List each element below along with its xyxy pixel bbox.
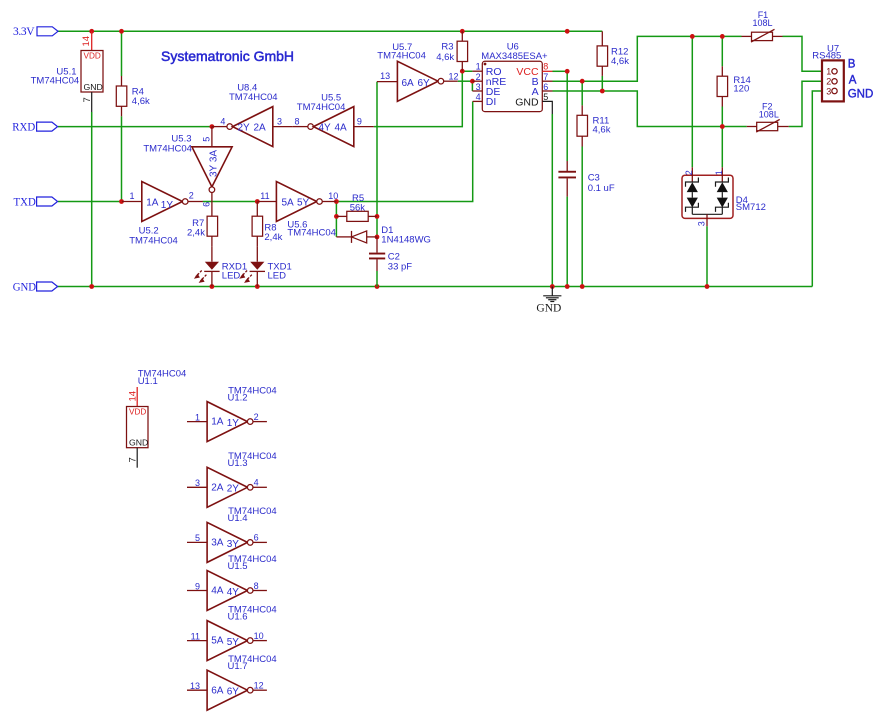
node GND global label xyxy=(13,282,58,294)
svg-text:8: 8 xyxy=(254,581,259,591)
svg-text:9: 9 xyxy=(195,581,200,591)
svg-text:A: A xyxy=(849,74,857,86)
svg-text:7: 7 xyxy=(128,457,139,462)
svg-text:3.3V: 3.3V xyxy=(13,26,35,38)
left TVS pair xyxy=(686,178,699,187)
svg-text:TXD: TXD xyxy=(14,197,36,209)
svg-text:6Y: 6Y xyxy=(418,78,431,89)
svg-text:12: 12 xyxy=(449,72,459,82)
svg-text:2: 2 xyxy=(189,191,194,201)
svg-text:1Y: 1Y xyxy=(161,200,174,211)
wire pin5 GND column xyxy=(551,114,553,287)
connector U7 RS485 xyxy=(812,43,844,101)
svg-text:3: 3 xyxy=(277,116,282,126)
wire U5.5 input to RO column xyxy=(374,71,473,126)
wire F2 to U7 pin2 xyxy=(789,81,822,126)
svg-text:14: 14 xyxy=(81,36,92,47)
power unit U5.1 xyxy=(31,31,103,112)
svg-text:12: 12 xyxy=(254,681,264,691)
svg-text:GND: GND xyxy=(13,282,36,294)
svg-text:11: 11 xyxy=(260,191,269,201)
svg-text:TM74HC04: TM74HC04 xyxy=(129,236,178,247)
svg-text:4,6k: 4,6k xyxy=(593,125,611,136)
power unit U1.1 xyxy=(127,369,187,468)
op-amp U8.4 inverter (mirrored) xyxy=(212,82,293,146)
pin 2 nRE xyxy=(472,80,482,82)
op-amp U1.7 inverter xyxy=(187,654,277,710)
svg-text:1A: 1A xyxy=(211,417,224,428)
svg-text:1A: 1A xyxy=(146,198,159,209)
svg-text:5: 5 xyxy=(195,533,200,543)
svg-text:LED: LED xyxy=(268,271,287,282)
svg-text:DI: DI xyxy=(486,96,497,108)
svg-text:5Y: 5Y xyxy=(227,637,240,648)
svg-text:TM74HC04: TM74HC04 xyxy=(297,102,346,113)
svg-text:9: 9 xyxy=(357,116,362,126)
svg-text:1N4148WG: 1N4148WG xyxy=(381,234,431,245)
svg-text:6: 6 xyxy=(543,82,548,92)
pin 5 GND xyxy=(542,101,552,114)
svg-text:4Y: 4Y xyxy=(227,587,240,598)
op-amp U5.5 inverter (mirrored) xyxy=(293,93,374,147)
svg-text:6: 6 xyxy=(254,533,259,543)
svg-text:8: 8 xyxy=(295,116,300,126)
pin 6 A xyxy=(542,90,552,92)
op-amp U1.3 inverter xyxy=(187,451,277,507)
diode D1 xyxy=(336,225,431,246)
pin 1 xyxy=(721,167,723,182)
wire U5.6 output down to R5/D1 xyxy=(335,202,337,237)
pin 3 DE xyxy=(472,90,482,92)
pin 4 DI xyxy=(473,100,483,102)
svg-text:RXD: RXD xyxy=(12,122,35,134)
svg-text:5A: 5A xyxy=(282,198,295,209)
LED TXD1 xyxy=(239,246,291,286)
svg-text:B: B xyxy=(848,59,856,71)
svg-text:108L: 108L xyxy=(759,109,779,119)
svg-text:13: 13 xyxy=(380,71,390,81)
svg-text:4: 4 xyxy=(476,92,481,102)
svg-text:1: 1 xyxy=(195,412,200,422)
svg-text:4,6k: 4,6k xyxy=(132,96,150,107)
svg-text:GND: GND xyxy=(536,303,561,315)
svg-text:4Y: 4Y xyxy=(319,123,332,134)
pin 1 RO xyxy=(472,70,482,72)
node TXD global label xyxy=(14,197,58,209)
svg-text:4: 4 xyxy=(220,116,225,126)
svg-text:1: 1 xyxy=(476,62,481,72)
wire U5.1 pin7 column xyxy=(91,112,93,287)
svg-text:U1.2: U1.2 xyxy=(228,392,248,403)
op-amp U5.2 inverter xyxy=(122,182,203,247)
op-amp U5.7 inverter xyxy=(377,42,459,101)
op-amp U1.6 inverter xyxy=(187,604,277,660)
svg-text:5: 5 xyxy=(543,92,548,102)
wire U5.6 output to DI xyxy=(336,101,472,201)
svg-text:4,6k: 4,6k xyxy=(611,56,629,67)
svg-text:3Y 3A: 3Y 3A xyxy=(208,150,219,177)
junction dots xyxy=(89,29,94,34)
wire U5.7 output to nRE xyxy=(458,80,473,82)
resistor R11 xyxy=(577,105,611,146)
svg-text:U1.6: U1.6 xyxy=(228,611,248,622)
svg-text:GND: GND xyxy=(515,97,539,109)
svg-text:2A: 2A xyxy=(211,482,224,493)
svg-text:120: 120 xyxy=(733,84,749,95)
resistor R3 xyxy=(436,31,467,71)
pin 2 xyxy=(691,167,693,182)
node 3.3V global label xyxy=(13,26,58,38)
wire D4 pin3 column xyxy=(706,226,708,286)
fuse F1 xyxy=(742,10,783,42)
svg-text:6Y: 6Y xyxy=(227,687,240,698)
wire RXD row xyxy=(58,126,212,128)
LED RXD1 xyxy=(194,246,247,286)
svg-text:5: 5 xyxy=(202,137,212,142)
svg-text:6A: 6A xyxy=(211,685,224,696)
wire TXD row xyxy=(58,201,122,203)
common bus and pin 3 xyxy=(692,213,722,215)
svg-text:SM712: SM712 xyxy=(736,202,766,213)
svg-text:2A: 2A xyxy=(254,123,267,134)
svg-text:1Y: 1Y xyxy=(227,418,240,429)
svg-text:6: 6 xyxy=(202,202,212,207)
wire F1 to U7 pin1 xyxy=(783,36,823,71)
wire U5.2 output net xyxy=(203,201,258,203)
fuse F2 xyxy=(747,101,789,132)
node RXD global label xyxy=(12,122,57,134)
svg-text:13: 13 xyxy=(190,681,200,691)
svg-text:3A: 3A xyxy=(211,538,224,549)
resistor R4 xyxy=(116,76,150,116)
svg-text:U1.5: U1.5 xyxy=(228,561,248,572)
svg-text:1: 1 xyxy=(826,67,831,77)
svg-text:MAX3485ESA+: MAX3485ESA+ xyxy=(481,51,548,62)
svg-text:U1.3: U1.3 xyxy=(228,458,248,469)
right TVS pair xyxy=(716,178,729,187)
svg-text:1: 1 xyxy=(714,170,724,175)
svg-text:LED: LED xyxy=(222,271,241,282)
TVS diode D4 SM712 xyxy=(682,167,766,226)
pin 8 VCC xyxy=(542,70,552,72)
resistor R7 xyxy=(187,216,218,246)
op-amp U5.6 inverter xyxy=(258,182,339,239)
wire VCC pin8 to C3 column xyxy=(553,70,568,72)
wire 3.3V rail xyxy=(58,30,602,32)
svg-text:TM74HC04: TM74HC04 xyxy=(31,76,80,87)
svg-text:2: 2 xyxy=(826,77,831,87)
svg-text:2,4k: 2,4k xyxy=(187,228,205,239)
wire R12 bottom to A row xyxy=(601,76,603,91)
wire B row to F1 xyxy=(553,36,742,81)
svg-text:3: 3 xyxy=(476,82,481,92)
svg-text:56k: 56k xyxy=(350,202,366,213)
capacitor C2 xyxy=(369,237,412,287)
wire R14 column xyxy=(721,36,723,66)
svg-text:14: 14 xyxy=(128,391,139,402)
svg-text:3: 3 xyxy=(826,86,831,96)
wire A row to F2 rail xyxy=(553,91,747,127)
wire R4 column xyxy=(121,31,123,76)
svg-text:2,4k: 2,4k xyxy=(264,232,282,243)
op-amp U1.5 inverter xyxy=(187,554,277,610)
svg-text:C3: C3 xyxy=(588,172,600,183)
svg-text:TM74HC04: TM74HC04 xyxy=(377,51,426,62)
op-amp U1.2 inverter xyxy=(187,385,277,441)
svg-text:4A: 4A xyxy=(335,123,348,134)
svg-text:2: 2 xyxy=(684,170,694,175)
svg-text:7: 7 xyxy=(543,72,548,82)
svg-text:U1.4: U1.4 xyxy=(228,513,248,524)
svg-text:10: 10 xyxy=(254,631,264,641)
svg-text:TM74HC04: TM74HC04 xyxy=(287,228,336,239)
svg-text:GND: GND xyxy=(129,437,148,447)
svg-text:4A: 4A xyxy=(211,586,224,597)
svg-text:6A: 6A xyxy=(402,78,415,89)
svg-text:TM74HC04: TM74HC04 xyxy=(143,144,192,155)
svg-text:Systematronic GmbH: Systematronic GmbH xyxy=(161,48,294,64)
ground symbol GND xyxy=(536,287,561,315)
capacitor C3 xyxy=(558,161,614,197)
wire U7 pin3 GND column xyxy=(812,91,822,287)
svg-text:0.1 uF: 0.1 uF xyxy=(588,183,615,194)
svg-text:5A: 5A xyxy=(211,636,224,647)
svg-text:11: 11 xyxy=(191,631,200,641)
svg-text:VDD: VDD xyxy=(84,52,101,61)
wire GND rail xyxy=(58,286,813,288)
svg-text:VDD: VDD xyxy=(129,407,146,416)
svg-text:4: 4 xyxy=(254,478,259,488)
svg-text:7: 7 xyxy=(82,97,93,102)
op-amp U5.3 inverter (pointing down) xyxy=(143,127,232,216)
svg-text:GND: GND xyxy=(848,88,874,100)
svg-text:GND: GND xyxy=(84,82,103,92)
svg-text:U1.1: U1.1 xyxy=(138,376,158,387)
svg-text:2: 2 xyxy=(254,412,259,422)
resistor R5 xyxy=(336,193,377,221)
svg-text:3: 3 xyxy=(195,478,200,488)
svg-text:2: 2 xyxy=(476,72,481,82)
resistor R8 xyxy=(252,202,283,247)
svg-text:TM74HC04: TM74HC04 xyxy=(229,92,278,103)
svg-text:3: 3 xyxy=(697,221,707,226)
svg-text:33 pF: 33 pF xyxy=(388,262,412,273)
wire nRE to DE xyxy=(471,81,473,91)
wire D4 pin1 column xyxy=(721,127,723,168)
svg-text:1: 1 xyxy=(130,191,135,201)
pin 7 B xyxy=(542,80,552,82)
svg-text:8: 8 xyxy=(543,62,548,72)
svg-text:108L: 108L xyxy=(753,18,773,28)
U6 MAX3485 transceiver xyxy=(472,41,552,114)
wire D4 pin2 column xyxy=(691,36,693,167)
wire R11 column xyxy=(581,81,583,105)
resistor R12 xyxy=(597,31,629,76)
svg-text:3Y: 3Y xyxy=(227,539,240,550)
wire U5.7 input column xyxy=(376,82,378,237)
svg-text:2Y: 2Y xyxy=(238,123,251,134)
op-amp U1.4 inverter xyxy=(187,506,277,562)
svg-text:4,6k: 4,6k xyxy=(436,52,454,63)
svg-text:2Y: 2Y xyxy=(227,484,240,495)
svg-text:5Y: 5Y xyxy=(297,198,310,209)
svg-text:10: 10 xyxy=(328,191,338,201)
svg-text:U1.7: U1.7 xyxy=(228,661,248,672)
resistor R14 xyxy=(717,66,751,106)
